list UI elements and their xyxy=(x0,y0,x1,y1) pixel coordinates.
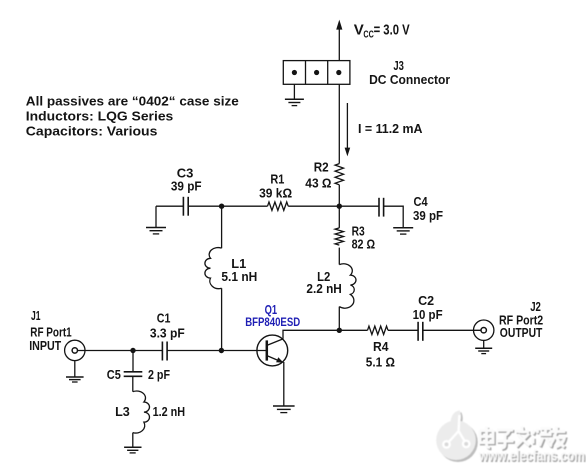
wire C5 to L3 xyxy=(132,376,134,391)
capacitor C3 xyxy=(183,197,188,216)
wire R3 to L2 xyxy=(338,248,340,265)
VCC label xyxy=(354,21,410,40)
svg-text:V: V xyxy=(354,21,364,38)
transistor Q1 xyxy=(257,335,288,366)
capacitor C1 xyxy=(162,342,167,361)
connector J3 xyxy=(283,61,350,85)
svg-text:C4: C4 xyxy=(414,194,429,209)
node L1 bottom junction xyxy=(219,348,224,353)
ground for C3 xyxy=(146,206,166,234)
svg-text:39 kΩ: 39 kΩ xyxy=(259,186,292,201)
wire R2 to node xyxy=(338,185,340,206)
C4 labels xyxy=(413,194,443,223)
svg-text:INPUT: INPUT xyxy=(29,338,61,353)
svg-text:2 pF: 2 pF xyxy=(148,367,170,382)
L2 labels xyxy=(306,269,341,296)
C2 labels xyxy=(413,293,443,322)
wire C2 to J2 xyxy=(423,329,481,331)
watermark url text xyxy=(478,448,586,466)
current arrow I xyxy=(345,103,351,156)
svg-text:R2: R2 xyxy=(314,160,329,175)
svg-text:1.2 nH: 1.2 nH xyxy=(153,404,186,419)
svg-text:BFP840ESD: BFP840ESD xyxy=(245,317,300,329)
wire J1 to C1 xyxy=(78,350,163,352)
connector J1 xyxy=(65,340,85,360)
wire L1 to base rail xyxy=(221,288,223,350)
svg-text:10 pF: 10 pF xyxy=(413,307,443,322)
wire node to C4 xyxy=(339,205,379,207)
ground for C4 xyxy=(393,228,413,234)
svg-text:Q1: Q1 xyxy=(265,303,278,317)
node collector junction xyxy=(337,328,342,333)
ground for J1 xyxy=(66,361,84,382)
wire C1 to base xyxy=(167,350,266,352)
watermark chinese text xyxy=(480,427,567,450)
svg-text:J3: J3 xyxy=(393,58,404,73)
svg-text:3.3 pF: 3.3 pF xyxy=(150,325,185,340)
C3 labels xyxy=(171,165,202,193)
capacitor C2 xyxy=(418,322,423,341)
svg-text:CC: CC xyxy=(363,29,373,40)
connector J2 xyxy=(474,320,494,340)
L3 labels xyxy=(115,404,185,419)
svg-text:All passives are “0402“ case s: All passives are “0402“ case size xyxy=(26,94,239,109)
svg-text:OUTPUT: OUTPUT xyxy=(500,325,543,340)
wire node to R4 xyxy=(339,329,367,331)
power net VCC arrow xyxy=(336,20,342,61)
J2 labels xyxy=(499,299,543,340)
svg-text:39 pF: 39 pF xyxy=(171,179,202,194)
capacitor C4 xyxy=(379,198,384,217)
wire collector up xyxy=(283,330,339,339)
wire emitter down xyxy=(283,362,285,406)
R1 labels xyxy=(259,172,292,201)
wire J3 to R2 xyxy=(338,84,340,163)
svg-text:5.1 nH: 5.1 nH xyxy=(221,269,257,284)
svg-text:Inductors: LQG Series: Inductors: LQG Series xyxy=(26,109,174,124)
svg-text:C5: C5 xyxy=(107,367,121,382)
inductor L1 xyxy=(205,248,222,289)
svg-text:39 pF: 39 pF xyxy=(413,208,443,223)
wire L2 to collector node xyxy=(338,307,340,331)
L1 labels xyxy=(221,256,257,284)
wire C4 to ground xyxy=(384,206,404,228)
svg-text:DC Connector: DC Connector xyxy=(369,72,450,87)
inductor L3 xyxy=(133,391,150,433)
svg-text:I = 11.2 mA: I = 11.2 mA xyxy=(358,121,423,136)
svg-text:82 Ω: 82 Ω xyxy=(352,236,376,251)
svg-text:R1: R1 xyxy=(270,172,284,187)
resistor R1 xyxy=(268,202,289,210)
capacitor C5 xyxy=(124,351,143,377)
wire L3 to ground xyxy=(132,433,134,448)
wire node to R3 xyxy=(338,206,340,228)
R4 labels xyxy=(366,339,395,369)
J1 labels xyxy=(29,308,71,353)
svg-text:Capacitors: Various: Capacitors: Various xyxy=(26,123,158,138)
ground for Q1 emitter xyxy=(273,406,295,413)
C5 labels xyxy=(107,367,170,382)
svg-text:L3: L3 xyxy=(115,404,130,419)
resistor R3 xyxy=(335,228,343,245)
svg-text:J1: J1 xyxy=(31,308,41,323)
ground at J3 pin1 xyxy=(285,84,304,105)
ground for J2 xyxy=(475,340,492,353)
R3 labels xyxy=(352,223,376,251)
node C5 tap xyxy=(130,348,135,353)
svg-text:R4: R4 xyxy=(373,339,389,354)
svg-text:= 3.0 V: = 3.0 V xyxy=(374,21,410,38)
svg-text:2.2 nH: 2.2 nH xyxy=(306,281,341,296)
C1 labels xyxy=(150,311,185,341)
R2 labels xyxy=(305,160,331,191)
node bias rail junction xyxy=(337,204,342,209)
wire R4 to C2 xyxy=(388,329,418,331)
resistor R2 xyxy=(335,164,343,185)
wire ground to C3 xyxy=(156,205,183,207)
svg-text:C1: C1 xyxy=(157,311,171,326)
inductor L2 xyxy=(339,264,356,308)
wire R1 to node xyxy=(288,205,339,207)
watermark logo xyxy=(436,410,478,462)
wire L1 branch xyxy=(221,206,223,248)
ground for L3 xyxy=(124,447,141,453)
notes text block xyxy=(26,94,239,139)
svg-text:www.elecfans.com: www.elecfans.com xyxy=(478,448,585,465)
svg-text:43 Ω: 43 Ω xyxy=(305,176,331,191)
svg-text:5.1 Ω: 5.1 Ω xyxy=(366,355,395,370)
Q1 labels xyxy=(245,303,300,329)
resistor R4 xyxy=(368,326,388,334)
J3 label xyxy=(369,58,450,87)
wire C3 to R1 xyxy=(188,205,267,207)
node L1 tap xyxy=(219,204,224,209)
